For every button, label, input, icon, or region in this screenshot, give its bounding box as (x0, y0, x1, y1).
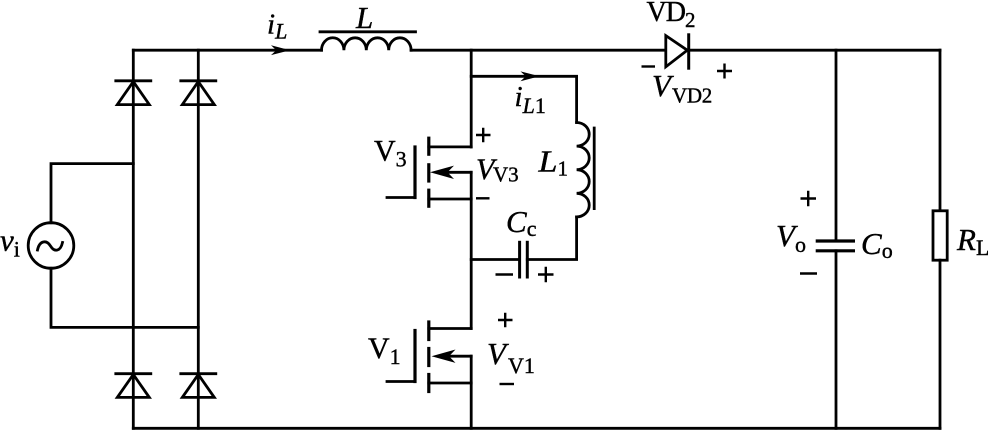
transistor V1 (MOSFET) (387, 322, 471, 392)
wire: bottom rail (133, 427, 940, 430)
wire: RL branch bottom (939, 260, 942, 428)
svg-text:RL: RL (956, 222, 988, 260)
wire: vi bottom lead (51, 268, 198, 327)
resistor RL (933, 211, 947, 260)
svg-text:vi: vi (0, 223, 20, 262)
diode VD-bridge top-left (116, 81, 151, 105)
label minus VD2 (642, 65, 656, 67)
label minus Cc (496, 273, 514, 275)
svg-text:V1: V1 (368, 332, 401, 369)
svg-text:V3: V3 (374, 135, 407, 172)
label plus Cc (538, 267, 554, 283)
svg-text:Co: Co (861, 226, 893, 263)
label plus VD2 (717, 64, 732, 79)
svg-text:L1: L1 (537, 144, 568, 181)
wire: V3/V1 branch drain line (470, 50, 473, 147)
svg-text:Cc: Cc (506, 204, 537, 241)
label plus Co (801, 191, 817, 207)
wire: Co branch top (835, 50, 838, 241)
wire: Co branch bottom (835, 251, 838, 428)
diode VD-bridge top-right (181, 81, 216, 105)
svg-text:L: L (355, 0, 373, 35)
label plus V3 (476, 128, 491, 142)
wire: vi top lead (51, 164, 133, 223)
label minus V3 (476, 197, 490, 199)
diode VD-bridge bottom-left (116, 374, 151, 398)
svg-text:V: V (487, 336, 509, 371)
svg-text:iL1: iL1 (515, 81, 546, 118)
AC source vi (28, 223, 74, 269)
capacitor Cc (520, 242, 528, 277)
wire: L1 bottom to Cc (527, 217, 576, 260)
svg-text:V: V (652, 68, 674, 103)
inductor L (320, 32, 416, 50)
label minus V1 (500, 383, 515, 385)
wire: V1 source to bottom rail (470, 356, 473, 428)
current arrow iL (271, 45, 290, 55)
wire: Cc to V3/V1 branch (471, 258, 519, 261)
current arrow iL1 (521, 71, 540, 81)
svg-text:VD2: VD2 (647, 0, 695, 32)
wire: left bridge leg (132, 50, 135, 428)
transistor V3 (MOSFET) (387, 138, 471, 206)
wire: RL branch top (939, 50, 942, 211)
wire: top rail (133, 49, 940, 52)
label minus Co (800, 272, 817, 274)
diode VD2 (666, 35, 689, 68)
wire: V3 source to V1 drain (470, 172, 473, 328)
wire: inner loop top (iL1 wire) (471, 76, 576, 122)
svg-text:VD2: VD2 (672, 84, 712, 108)
svg-text:V1: V1 (508, 353, 535, 378)
capacitor Co (817, 241, 853, 251)
diode VD-bridge bottom-right (181, 374, 216, 398)
svg-text:iL: iL (267, 9, 287, 44)
wire: right bridge leg (197, 50, 200, 428)
label plus V1 (498, 313, 513, 327)
inductor L1 (577, 123, 595, 217)
svg-text:V3: V3 (493, 163, 519, 187)
svg-text:Vo: Vo (776, 218, 806, 257)
